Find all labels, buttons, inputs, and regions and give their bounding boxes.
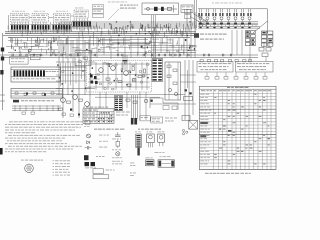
wire bundle from top edge (195, 0, 197, 28)
resistors in A8 (106, 67, 146, 87)
components below wire row (62, 113, 80, 116)
oscillator stage Q6 (233, 9, 237, 22)
wire bundle x125 (123, 55, 128, 70)
connector XS1 box (11, 67, 61, 82)
legend symbol capacitor (85, 146, 108, 150)
package drawing case2 (147, 131, 155, 147)
label under XS2 (13, 100, 54, 103)
plug cluster at bundle end (131, 118, 137, 125)
box B-left1 (10, 57, 28, 65)
block A5 selector (93, 5, 104, 18)
package drawing case1 (135, 131, 141, 155)
oscillator stage Q2 (205, 9, 209, 22)
IC D4 pin cluster (72, 19, 91, 30)
legend small marks top (165, 118, 177, 122)
module box A9 (165, 62, 181, 100)
IC D3 pin cluster (52, 22, 72, 33)
boxes right of switch table (163, 106, 177, 110)
wires to right section (150, 60, 196, 120)
note box N2 (236, 62, 274, 73)
dashed module outline A8 (87, 61, 152, 93)
legend symbol lamp (112, 152, 122, 159)
components middle lower (126, 99, 153, 103)
switch table caption (83, 107, 108, 108)
block A6 tuner strip (142, 3, 179, 15)
oscillator stage Q1 (198, 9, 202, 22)
capacitor row on lower bus (12, 54, 232, 56)
terminal X2 (1, 57, 4, 61)
transistor V2 (73, 95, 78, 100)
capacitor C1 (154, 7, 158, 11)
voltage table row lines (199, 93, 276, 169)
oscillator stage Q3 (212, 9, 216, 22)
connector face view (25, 164, 34, 173)
legend symbol choke dark (84, 155, 105, 160)
wire verticals left-middle (56, 36, 95, 118)
wires middle lower (56, 92, 185, 120)
heading elements (138, 129, 161, 130)
crossed box fuse F1 (189, 120, 198, 129)
wires in A8 (88, 62, 150, 90)
wire bus upper (56, 22, 196, 28)
transistor V5 (111, 66, 116, 71)
transformer T1 (152, 59, 163, 82)
voltage table cell entries (200, 94, 270, 165)
relay block K2 contact grid (262, 31, 273, 46)
wire drops into middle modules (60, 36, 190, 59)
wire bus main (3, 32, 196, 38)
components row above table (200, 60, 252, 62)
wire stepped path (150, 98, 178, 110)
voltage table frame (199, 86, 276, 169)
legend list right of connector (53, 160, 71, 175)
voltage table header text (201, 90, 271, 91)
block A2 IF unit (32, 14, 49, 23)
note right of switch table (116, 112, 130, 116)
wire links between blocks (9, 15, 75, 32)
capacitor column right of A7 (199, 16, 206, 26)
oscillator stage Q5 (226, 9, 230, 22)
component row above voltage table (205, 73, 267, 80)
voltage table column lines (214, 89, 272, 169)
terminal X3 (0, 70, 3, 75)
label above bus (148, 27, 170, 28)
oscillator stage Q7 (240, 9, 244, 22)
dark component cluster in A8 (89, 75, 100, 85)
legend symbol varistor (112, 140, 121, 151)
wire mesh right of A9 (180, 70, 196, 88)
label mid-right (155, 151, 165, 154)
transformer T2 (115, 96, 123, 111)
wire diagonals to stage area (190, 14, 207, 27)
connector XS2 box (11, 89, 63, 99)
wire feeds left of stages (185, 9, 196, 58)
extra ticks left band (12, 45, 54, 55)
components left of table (182, 89, 193, 120)
IC D2 pin cluster (31, 22, 50, 33)
table emphasized cells (200, 122, 231, 137)
wire row below XS2 (12, 105, 61, 114)
legend symbol trimmer (112, 132, 121, 139)
transistor V7 (132, 78, 136, 82)
transistor V4 (99, 68, 104, 73)
resistor R1 (168, 7, 172, 10)
inductor L1 (147, 7, 150, 10)
module box A10 (75, 51, 91, 66)
resistors near V1-V3 (59, 99, 83, 111)
block A7 (181, 5, 193, 13)
oscillator stage Q8 (247, 9, 251, 22)
legend symbol transistor (87, 134, 110, 138)
left edge ticks (0, 95, 5, 101)
table caption (205, 173, 251, 174)
note box N1 (197, 62, 233, 73)
terminal X4 bottom (0, 148, 3, 155)
legend dark striped box (145, 157, 154, 165)
block A4 sound unit (74, 10, 89, 18)
wire mesh mid-left extras (61, 63, 87, 86)
legend box caption2 (151, 117, 163, 123)
capacitor C2 (161, 7, 164, 11)
block A3 video unit (54, 14, 71, 23)
wire top-right bus (198, 8, 268, 10)
transistor V1 (61, 98, 66, 103)
legend text bottom notes (130, 163, 136, 176)
heading pin layout (21, 160, 43, 161)
small figure left of legend heading (84, 121, 90, 127)
heading graphic symbols (94, 129, 124, 130)
wire drops top-right to lower bus (232, 30, 266, 62)
wire bundle into T1 (152, 15, 156, 58)
oscillator stage Q4 (219, 9, 223, 22)
relay block K1 contact grid (246, 31, 256, 46)
block A1 UHF unit (11, 14, 30, 23)
junction blob near bus end (194, 33, 199, 38)
terminal X1 (1, 48, 4, 52)
box B-left2 (30, 54, 40, 59)
bus junction ticks (8, 21, 196, 38)
wire segments below bus (6, 37, 195, 50)
wire (173, 5, 175, 13)
switch position table (83, 109, 114, 124)
legend box caption1 (140, 116, 150, 121)
terminal circles left of table (182, 129, 188, 135)
wire left edge vertical (2, 33, 4, 110)
components right column (259, 43, 271, 57)
scattered components mid-top (15, 39, 197, 58)
wire diagonal lead (253, 21, 268, 33)
package drawing case3 (158, 131, 165, 146)
labels above blocks (12, 2, 242, 12)
inductor L2 (28, 49, 31, 52)
legend symbol diode (87, 141, 109, 144)
legend text dimensions (112, 161, 123, 164)
label modulator note (108, 5, 138, 21)
wire right border vertical (267, 9, 269, 33)
wire stage bus band (198, 22, 260, 29)
note text top-right (200, 34, 227, 40)
IC D1 pin cluster (10, 22, 30, 33)
transistor V3 (85, 102, 90, 107)
legend dark squares pair (85, 162, 97, 168)
wire bundle mid-bottom (132, 95, 138, 119)
transistor V6 (124, 71, 129, 76)
legend scale figure (158, 156, 175, 167)
notes paragraph (5, 121, 83, 152)
wire bus lower (0, 53, 258, 58)
legend boxes bottom-left (93, 169, 115, 179)
